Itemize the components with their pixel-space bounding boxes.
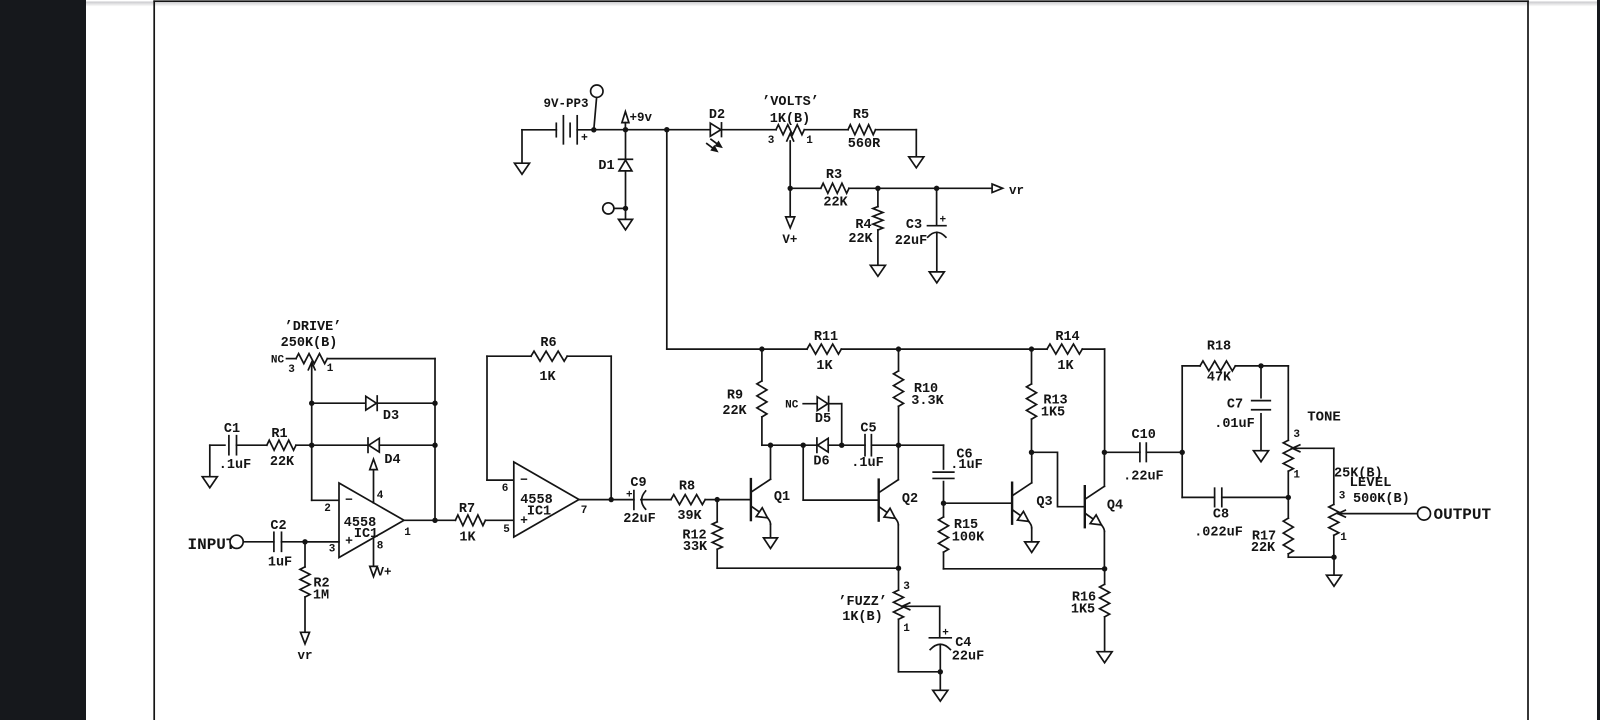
node V+ (782, 188, 797, 247)
wire (1182, 452, 1214, 497)
wire (312, 444, 368, 446)
ground (929, 272, 944, 283)
svg-text:C10: C10 (1132, 428, 1156, 443)
svg-text:INPUT: INPUT (187, 536, 235, 554)
resistor R13 1K5 (1027, 349, 1068, 455)
svg-text:’DRIVE’: ’DRIVE’ (285, 320, 342, 335)
svg-text:C1: C1 (224, 422, 240, 437)
svg-text:33K: 33K (683, 540, 708, 555)
transistor Q3 (1012, 483, 1053, 528)
resistor R3 22K (821, 168, 849, 211)
wire input (243, 541, 274, 543)
resistor R1 22K (267, 427, 296, 470)
transistor Q2 (879, 480, 918, 525)
resistor R11 1K (807, 330, 841, 374)
svg-text:+: + (345, 534, 353, 549)
wire (841, 346, 1047, 351)
wire output (404, 518, 455, 523)
svg-text:OUTPUT: OUTPUT (1434, 506, 1492, 524)
resistor R2 1M (300, 542, 330, 633)
wire (790, 187, 821, 189)
svg-text:−: − (520, 472, 528, 487)
svg-text:V+: V+ (376, 565, 391, 579)
op-amp IC1 B (502, 462, 588, 537)
svg-text:22K: 22K (1251, 541, 1276, 556)
diode D6 (813, 438, 829, 469)
wire pin2 (312, 499, 339, 501)
svg-text:1: 1 (903, 623, 910, 635)
potentiometer FUZZ 1K(B) (838, 568, 939, 635)
wire (577, 127, 596, 132)
ground (1327, 557, 1342, 586)
wire (715, 497, 751, 502)
svg-text:R8: R8 (679, 480, 695, 495)
wire (876, 130, 917, 157)
wire (641, 499, 671, 501)
svg-text:NC: NC (271, 355, 285, 367)
wire (897, 525, 899, 569)
svg-text:8: 8 (377, 541, 384, 553)
ground (1097, 652, 1112, 663)
resistor R12 33K (682, 500, 722, 569)
svg-text:39K: 39K (677, 509, 702, 524)
svg-text:3: 3 (768, 135, 775, 147)
svg-text:500K(B): 500K(B) (1353, 492, 1410, 507)
page top shadow (86, 2, 1597, 7)
wire (938, 645, 943, 675)
connector INPUT (187, 535, 243, 554)
svg-text:1K: 1K (1057, 359, 1074, 374)
svg-text:D1: D1 (598, 159, 614, 174)
ground (870, 265, 885, 276)
svg-text:1K: 1K (539, 370, 556, 385)
potentiometer TONE 25K(B) (1283, 409, 1382, 481)
resistor R16 1K5 (1071, 569, 1110, 652)
resistor R9 22K (722, 349, 767, 445)
svg-text:1K5: 1K5 (1041, 406, 1065, 421)
svg-text:560R: 560R (848, 137, 881, 152)
wire Q3 base (944, 502, 1013, 504)
resistor R7 1K (455, 502, 485, 545)
connector OUTPUT (1418, 506, 1492, 524)
pin 4 supply arrow (370, 459, 378, 503)
node NC (785, 400, 817, 412)
svg-text:R3: R3 (826, 168, 842, 183)
svg-text:.1uF: .1uF (219, 458, 251, 473)
wire (871, 443, 943, 448)
wire (941, 482, 946, 506)
svg-text:22uF: 22uF (895, 234, 927, 249)
svg-text:6: 6 (502, 483, 509, 495)
svg-text:1: 1 (327, 363, 334, 375)
wire vr feed (849, 186, 992, 191)
svg-text:Q4: Q4 (1107, 499, 1123, 514)
svg-text:TONE: TONE (1307, 409, 1341, 425)
wire feedback (487, 356, 531, 480)
wire (1287, 366, 1289, 440)
wire (296, 444, 312, 446)
wire drive wiper (309, 363, 314, 500)
svg-text:R18: R18 (1207, 340, 1231, 355)
svg-text:3: 3 (903, 581, 910, 593)
diode D4 (368, 438, 401, 468)
wire (897, 445, 899, 480)
svg-text:3: 3 (1293, 429, 1300, 441)
potentiometer LEVEL 500K(B) (1329, 475, 1410, 544)
wire (522, 129, 556, 131)
transistor Q1 (751, 479, 790, 524)
wire (770, 445, 772, 479)
svg-text:vr: vr (297, 649, 312, 663)
wire (1222, 496, 1289, 498)
svg-text:22K: 22K (823, 196, 848, 211)
wire Q2 base loop (803, 445, 879, 500)
svg-text:R9: R9 (727, 389, 743, 404)
svg-text:’FUZZ’: ’FUZZ’ (838, 595, 887, 610)
wire (804, 129, 848, 131)
wire (379, 444, 435, 446)
svg-text:V+: V+ (782, 233, 797, 247)
wire tone wiper (1292, 448, 1334, 504)
wire (829, 404, 842, 446)
diode D3 (366, 396, 399, 424)
svg-text:3: 3 (329, 544, 336, 556)
svg-text:1uF: 1uF (268, 556, 292, 571)
svg-text:.22uF: .22uF (1123, 469, 1164, 484)
svg-text:C9: C9 (630, 476, 646, 491)
svg-text:100K: 100K (952, 531, 985, 546)
LED D2 (707, 108, 725, 151)
transistor Q4 (1085, 486, 1123, 531)
svg-text:vr: vr (1009, 184, 1024, 198)
svg-text:2: 2 (324, 503, 331, 515)
capacitor C4 22uF (929, 628, 984, 665)
wire (237, 444, 267, 446)
wire (722, 129, 777, 131)
wire (944, 566, 1108, 571)
wire pin5 (485, 519, 513, 521)
capacitor C5 .1uF (851, 421, 883, 471)
wire (1235, 363, 1288, 368)
svg-text:3: 3 (1339, 491, 1346, 503)
wire (1286, 471, 1291, 500)
resistor R18 47K (1200, 340, 1235, 386)
svg-text:3: 3 (288, 364, 295, 376)
wire (312, 402, 366, 404)
resistor R5 560R (848, 108, 881, 152)
wire +9v rail (594, 127, 670, 132)
svg-text:22K: 22K (722, 404, 747, 419)
wire (1103, 531, 1105, 569)
capacitor C10 .22uF (1104, 428, 1163, 484)
wire level wiper (1338, 513, 1418, 515)
capacitor C7 .01uF (1214, 366, 1270, 432)
svg-text:−: − (345, 493, 353, 508)
svg-text:Q1: Q1 (774, 490, 790, 505)
capacitor C2 1uF (268, 519, 292, 571)
ground (909, 157, 924, 168)
wire (282, 539, 340, 544)
wire output (579, 497, 634, 502)
svg-text:.1uF: .1uF (950, 458, 982, 473)
svg-text:.01uF: .01uF (1214, 417, 1255, 432)
wire (1288, 535, 1336, 560)
resistor R15 100K (939, 503, 986, 569)
connector jack J2 (591, 85, 603, 97)
capacitor C6 .1uF (933, 448, 983, 479)
ground (202, 445, 217, 488)
switch wire to jack (594, 97, 597, 129)
svg-text:1K5: 1K5 (1071, 603, 1095, 618)
svg-text:IC1: IC1 (354, 527, 378, 542)
resistor R8 39K (671, 480, 705, 524)
svg-text:+9v: +9v (630, 111, 653, 125)
wire (1146, 450, 1185, 455)
svg-text:LEVEL: LEVEL (1349, 475, 1391, 491)
node +9v (622, 111, 653, 130)
svg-text:250K(B): 250K(B) (281, 336, 338, 351)
svg-text:D4: D4 (384, 453, 400, 468)
ground (515, 130, 530, 174)
wire (667, 129, 711, 131)
svg-text:1K: 1K (816, 359, 833, 374)
wire (943, 445, 945, 469)
wire row (762, 443, 817, 448)
svg-text:.022uF: .022uF (1194, 526, 1243, 541)
svg-text:R11: R11 (814, 330, 838, 345)
svg-text:22uF: 22uF (623, 512, 655, 527)
junction (623, 206, 628, 211)
wire (1182, 366, 1200, 452)
ground (933, 672, 948, 701)
wire (567, 356, 611, 499)
wire (1082, 349, 1104, 452)
ground (1025, 528, 1039, 553)
op-amp IC1 A (324, 483, 411, 558)
wire (705, 499, 717, 501)
svg-text:4: 4 (377, 490, 384, 502)
svg-text:D6: D6 (813, 454, 829, 469)
svg-text:D2: D2 (709, 108, 725, 123)
svg-text:1: 1 (404, 527, 411, 539)
svg-text:1K: 1K (459, 530, 476, 545)
potentiometer VOLTS 1K(B) (762, 95, 819, 188)
svg-text:C3: C3 (906, 218, 922, 233)
svg-text:R6: R6 (540, 336, 556, 351)
resistor R4 22K (848, 188, 883, 265)
junction (788, 186, 793, 191)
svg-text:22uF: 22uF (952, 649, 984, 664)
ground (1254, 414, 1269, 462)
svg-text:C2: C2 (270, 519, 286, 534)
svg-text:.1uF: .1uF (851, 456, 883, 471)
ground (619, 208, 633, 229)
svg-text:Q2: Q2 (902, 492, 918, 507)
wire (899, 619, 941, 672)
capacitor C1 .1uF (210, 422, 251, 473)
svg-text:R5: R5 (853, 108, 869, 123)
capacitor C9 22uF (623, 476, 655, 527)
diode D5 (815, 397, 831, 428)
resistor R17 22K (1251, 497, 1293, 557)
svg-text:R14: R14 (1055, 330, 1079, 345)
svg-text:D3: D3 (383, 409, 399, 424)
ground (764, 524, 778, 548)
svg-text:9V-PP3: 9V-PP3 (543, 97, 588, 111)
right edge strip (1597, 0, 1600, 720)
wire (828, 443, 865, 448)
wire (377, 402, 435, 404)
svg-text:Q3: Q3 (1036, 495, 1052, 510)
svg-text:+: + (939, 214, 946, 226)
svg-text:IC1: IC1 (527, 504, 551, 519)
node vr (992, 184, 1024, 198)
wire (939, 606, 941, 637)
wire rail (667, 130, 807, 352)
svg-text:NC: NC (785, 400, 799, 412)
svg-text:+: + (626, 490, 633, 502)
svg-text:3.3K: 3.3K (911, 394, 944, 409)
svg-text:22K: 22K (270, 455, 295, 470)
svg-text:1: 1 (806, 135, 813, 147)
svg-text:7: 7 (581, 505, 588, 517)
svg-text:’VOLTS’: ’VOLTS’ (762, 95, 819, 110)
resistor R14 1K (1047, 330, 1082, 374)
wire (1102, 450, 1107, 487)
svg-text:C5: C5 (860, 421, 876, 436)
resistor R6 1K (531, 336, 567, 385)
capacitor C3 22uF (895, 188, 947, 272)
wire pin6 (487, 479, 514, 481)
diode D1 (598, 130, 632, 209)
svg-text:1M: 1M (313, 589, 329, 604)
potentiometer DRIVE 250K(B) (271, 320, 341, 376)
pin 8 V+ arrow (370, 538, 392, 580)
node vr (297, 632, 312, 663)
svg-text:1: 1 (1293, 470, 1300, 482)
connector jack J1 (603, 203, 626, 214)
capacitor C8 .022uF (1194, 488, 1243, 540)
battery BT1 9V-PP3 (543, 97, 588, 145)
svg-text:C7: C7 (1227, 398, 1243, 413)
resistor R10 3.3K (894, 349, 945, 445)
svg-text:+: + (581, 132, 588, 145)
svg-text:R4: R4 (855, 218, 871, 233)
svg-text:C8: C8 (1213, 508, 1229, 523)
app sidebar (0, 0, 86, 720)
svg-text:1K(B): 1K(B) (842, 610, 883, 625)
svg-text:1: 1 (1340, 532, 1347, 544)
wire Q3 collector to Q4 base (1032, 452, 1085, 506)
wire (327, 359, 437, 521)
svg-text:5: 5 (503, 524, 510, 536)
svg-text:47K: 47K (1207, 371, 1232, 386)
svg-text:22K: 22K (848, 232, 873, 247)
svg-text:D5: D5 (815, 412, 831, 427)
svg-text:1K(B): 1K(B) (770, 112, 811, 127)
wire bottom row (717, 566, 901, 571)
wire pin3 (305, 541, 339, 543)
